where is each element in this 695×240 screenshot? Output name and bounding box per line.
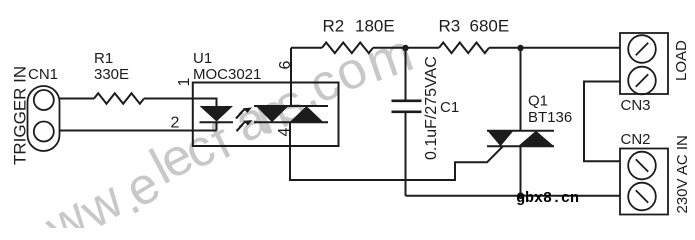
svg-text:2: 2 [171, 115, 180, 132]
svg-text:TRIGGER IN: TRIGGER IN [11, 66, 30, 165]
svg-text:330E: 330E [94, 66, 129, 83]
svg-text:CN1: CN1 [28, 66, 58, 83]
svg-text:180E: 180E [355, 17, 395, 36]
svg-text:6: 6 [277, 61, 294, 70]
svg-text:R1: R1 [94, 50, 113, 67]
svg-text:gbx8.cn: gbx8.cn [516, 190, 579, 207]
svg-text:R2: R2 [323, 17, 345, 36]
svg-text:CN3: CN3 [621, 97, 651, 114]
svg-text:LOAD: LOAD [673, 40, 690, 81]
svg-text:U1: U1 [193, 50, 212, 67]
svg-text:0.1uF/275VAC: 0.1uF/275VAC [423, 56, 440, 160]
svg-text:4: 4 [276, 128, 293, 137]
svg-text:680E: 680E [470, 17, 510, 36]
svg-text:MOC3021: MOC3021 [193, 66, 261, 83]
svg-text:CN2: CN2 [621, 131, 651, 148]
svg-text:R3: R3 [439, 17, 461, 36]
svg-text:230V AC IN: 230V AC IN [674, 135, 691, 213]
svg-text:Q1: Q1 [528, 93, 548, 110]
svg-text:C1: C1 [440, 99, 459, 116]
svg-text:BT136: BT136 [528, 109, 572, 126]
svg-text:1: 1 [176, 78, 193, 87]
